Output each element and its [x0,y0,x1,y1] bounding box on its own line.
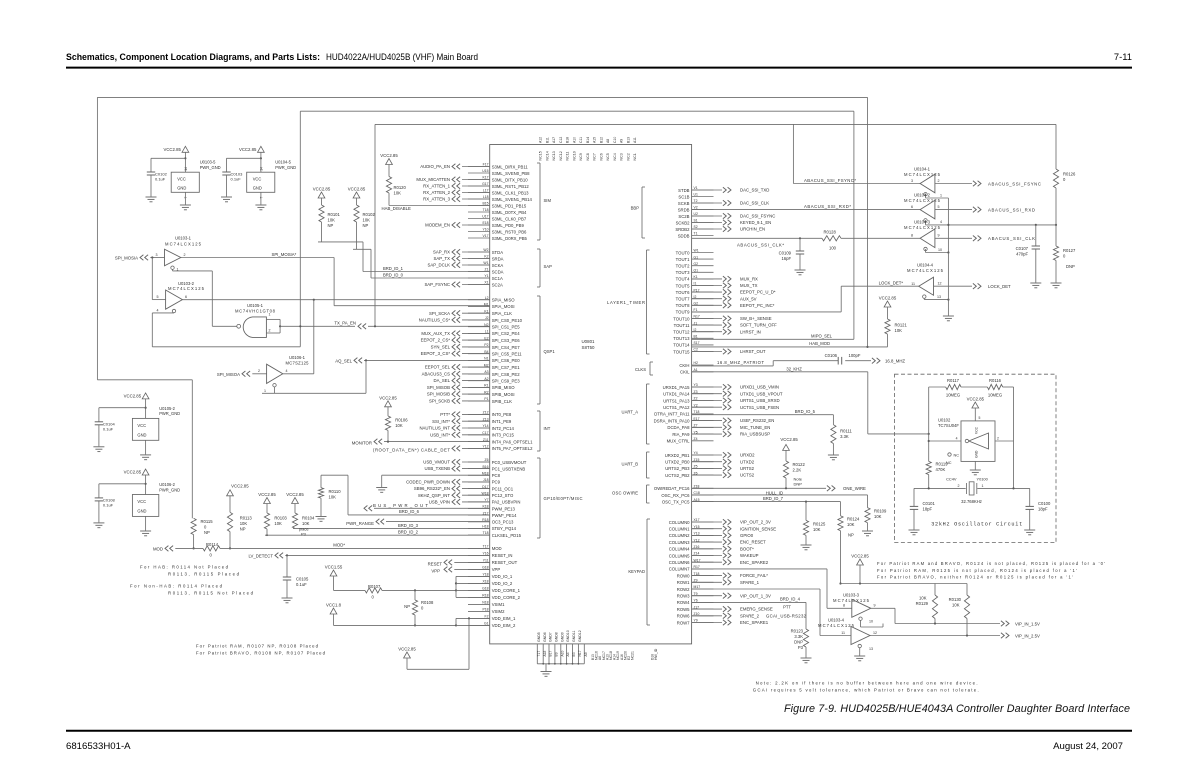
svg-text:4: 4 [157,309,159,313]
svg-text:10MEG: 10MEG [946,393,960,398]
wire TOUT9 to LOCK_DET route [692,281,919,312]
wire BRD_ID_3 / STBY [293,523,490,529]
pin F17 S3ML_DIRX_PB11 [468,163,528,170]
pin A3 SPI_CS8_PE2 [468,370,520,377]
svg-text:SPI_CS4_PE7: SPI_CS4_PE7 [492,345,521,350]
pin GND6 stub [543,632,547,664]
wire MIPO_SEL row (TOUT13) [692,333,854,339]
wire EMERG_SENSE [692,606,773,612]
svg-text:GCAI requires 5 volt tolerance: GCAI requires 5 volt tolerance, which Pa… [753,687,979,692]
svg-text:H2: H2 [694,361,698,365]
wire BOOT* [692,546,755,552]
svg-text:VPP: VPP [431,569,440,574]
svg-text:VIP_OUT_1_3V: VIP_OUT_1_3V [740,593,771,598]
svg-text:SC1A: SC1A [492,276,503,281]
wire U0103-3 enable [861,620,884,627]
svg-text:A9: A9 [584,652,588,656]
svg-text:OSC_RX_PC6: OSC_RX_PC6 [661,493,690,498]
svg-text:USB*_RS232_EN: USB*_RS232_EN [740,418,774,423]
pin M2 SPI_CS7_PE1 [468,363,520,370]
pin R17 COLUMN7 [669,565,714,572]
pin D18 HW_ID [650,648,658,660]
svg-text:BRD_ID_6: BRD_ID_6 [399,509,420,514]
svg-text:ROW5: ROW5 [677,607,690,612]
svg-text:W1: W1 [694,249,699,253]
svg-text:U0104-2: U0104-2 [914,193,931,198]
svg-text:TOUT12: TOUT12 [673,330,690,335]
svg-text:2: 2 [997,437,999,441]
svg-text:VCC2.85: VCC2.85 [124,470,142,475]
svg-text:(ROOT_DATA_EN*) CABLE_DET: (ROOT_DATA_EN*) CABLE_DET [373,447,450,452]
svg-text:ROW3: ROW3 [677,594,690,599]
svg-text:U0801: U0801 [582,339,595,344]
pin NC10 (top) [573,137,577,161]
svg-text:R0101: R0101 [328,212,341,217]
svg-text:SRDB: SRDB [678,207,690,212]
wire MUX_MICATTEN [416,177,489,183]
wire SPI_SCKB [429,398,490,404]
svg-text:LV_DETECT: LV_DETECT [248,554,273,559]
pin NC16 (bottom) [591,651,599,660]
svg-text:Figure 7-9. HUD4025B/HUE4043A: Figure 7-9. HUD4025B/HUE4043A Controller… [784,703,1130,715]
svg-text:UTXD1_USB_VPOUT: UTXD1_USB_VPOUT [740,391,783,396]
pin E2 SPI_CS3_PE6 [468,336,520,343]
svg-text:SPIB_CLK: SPIB_CLK [492,399,512,404]
wire NAUTILUS_CS* [419,317,490,323]
wire AUDIO_PA_EN [420,164,489,170]
ground (R0125) [801,545,812,550]
pin F2 VDD_EIM_1 [468,615,516,622]
svg-text:R0127: R0127 [1063,248,1076,253]
svg-text:VCC2.85: VCC2.85 [851,554,869,559]
svg-text:A17: A17 [552,137,556,143]
svg-text:U1: U1 [694,193,698,197]
wire U0103-4 enable to ground [859,648,861,656]
svg-text:NC11: NC11 [566,152,570,161]
svg-text:VCC1.55: VCC1.55 [325,565,343,570]
svg-text:T17: T17 [537,651,541,657]
wire EEPOT_3_CS* [421,351,490,357]
svg-text:EEPOT_3_CS*: EEPOT_3_CS* [421,351,451,356]
svg-text:RESET_IN: RESET_IN [492,553,513,558]
svg-text:ROW4: ROW4 [677,600,690,605]
wire MUX_TX [692,283,758,289]
svg-text:TOUT6: TOUT6 [676,290,690,295]
svg-text:SAP: SAP [544,264,553,269]
svg-text:U0104-1: U0104-1 [914,167,931,172]
dashed box 32kHz oscillator [895,374,1057,542]
svg-text:12: 12 [873,631,877,635]
svg-text:VCC: VCC [177,177,186,182]
pin T18 CLKSEL_PD15 [468,531,522,538]
resistor R0113 10K NP with VCC2.85 [227,484,253,550]
wire U0106-1 output to SPIA_MISO [283,300,314,374]
pin P2 SPI_CS4_PE7 [468,343,520,350]
svg-text:MC74LCX125: MC74LCX125 [818,623,855,628]
pin GND5 stub [537,632,541,664]
note 2.2K one wire [753,681,979,693]
svg-text:INT2_PC14: INT2_PC14 [492,426,515,431]
pin T18 ROW0 [677,572,714,579]
svg-text:T18: T18 [483,208,489,212]
wire ROW4 BRD_ID_4 to R0123 [692,597,806,629]
svg-text:8KHZ_QSP_INT: 8KHZ_QSP_INT [418,493,450,498]
svg-text:RX_ATTEN_2: RX_ATTEN_2 [423,190,451,195]
svg-text:NC6: NC6 [600,153,604,160]
svg-text:C0109: C0109 [779,251,792,256]
svg-text:COLUMN0: COLUMN0 [669,520,690,525]
svg-text:VCC2.85: VCC2.85 [348,187,366,192]
wire ground bus under IC [537,663,584,672]
pin B16 PC1_USBTXENB [468,465,525,472]
bracket group QSP1 [537,296,555,404]
wire CKIL 32_KHZ row to oscillator [692,366,930,435]
wire RIA_USBSUSP [692,431,771,437]
svg-text:GND7: GND7 [549,632,553,642]
pin Q1 TOUT3 [676,269,714,276]
wire FORCE_FAIL* [692,573,769,579]
svg-text:U0105-1: U0105-1 [247,303,264,308]
svg-text:GND9: GND9 [560,632,564,642]
svg-text:SCKA: SCKA [492,263,504,268]
svg-text:U0104-3: U0104-3 [914,220,931,225]
svg-text:RESET: RESET [428,562,443,567]
svg-text:RIA_PA9: RIA_PA9 [672,432,690,437]
svg-text:11: 11 [911,282,915,286]
svg-text:8: 8 [911,234,913,238]
svg-text:SC2A: SC2A [492,282,503,287]
svg-text:10K: 10K [847,522,855,527]
pin R18 OC3_PC13 [468,518,514,525]
wire PTT* [440,412,489,418]
wire U0104-2 enable rail to R0126/R0127 [926,220,1058,226]
svg-text:BRD_ID_7: BRD_ID_7 [763,496,784,501]
note For Patriot RAM and BRAVO [877,561,1105,580]
svg-text:B11: B11 [546,137,550,143]
pin K1 TOUT4 [676,275,714,282]
pin N18 VSIM1 [468,601,505,608]
svg-text:INT1_PE9: INT1_PE9 [492,419,512,424]
pin Z18 OWIREDAT_PC16 [654,485,714,492]
svg-text:NC15: NC15 [539,151,543,160]
svg-text:STDA: STDA [492,250,504,255]
svg-text:MUX_AUX_TX: MUX_AUX_TX [421,331,450,336]
svg-text:VCC: VCC [137,499,146,504]
svg-text:3: 3 [156,253,158,257]
svg-text:R0129: R0129 [916,601,929,606]
bracket group LAYER1_TIMER [607,250,650,354]
svg-text:SAP_DCLK: SAP_DCLK [428,263,451,268]
svg-text:VSIM2: VSIM2 [492,609,505,614]
svg-text:VCC2.85: VCC2.85 [967,397,985,402]
svg-text:COLUMN6: COLUMN6 [669,560,690,565]
svg-text:LHRST_OUT: LHRST_OUT [740,349,766,354]
svg-text:SC1B: SC1B [678,194,689,199]
svg-text:DTRA_INT7_PA11: DTRA_INT7_PA11 [654,412,690,417]
wire LHRST_IN [692,329,761,335]
svg-text:GND: GND [253,186,262,191]
svg-text:URTS2: URTS2 [740,466,755,471]
note For Patriot RAM/BRAVO resistors [196,644,326,656]
svg-text:PWR_GND: PWR_GND [159,411,180,416]
svg-text:G2: G2 [694,262,699,266]
pin Y5 RIA_PA9 [672,430,713,437]
svg-text:ROW7: ROW7 [677,620,690,625]
svg-text:A10: A10 [573,137,577,143]
svg-text:GND: GND [137,509,146,514]
wire ABACUS_SSI_FSYNC output [935,181,1041,187]
svg-text:VIP_IN_2.5V: VIP_IN_2.5V [1015,633,1040,638]
svg-text:URTS1_USB_XRXD: URTS1_USB_XRXD [740,398,780,403]
svg-text:32kHz Oscillator Circuit: 32kHz Oscillator Circuit [931,522,1022,528]
svg-text:5: 5 [157,295,159,299]
wire MOD-HAB_MOD top loop (left border) [97,97,192,518]
svg-text:SW_B+_SENSE: SW_B+_SENSE [740,316,772,321]
wire AUX_5V [692,296,757,302]
pin R1 SPIB_MISO [468,384,515,391]
svg-text:UCTS2_PB2: UCTS2_PB2 [665,473,690,478]
svg-text:P3: P3 [798,645,804,650]
svg-text:SRDB2: SRDB2 [675,227,690,232]
svg-text:GND8: GND8 [555,632,559,642]
svg-text:TOUT14: TOUT14 [673,343,690,348]
svg-text:13: 13 [937,295,941,299]
resistor R0106 10K with VCC2.85 (MONITOR) [379,395,408,441]
pin Y3 URXD1_PA15 [663,383,714,390]
svg-text:WAKEUP: WAKEUP [740,553,759,558]
ground (PC8) [376,488,387,493]
svg-text:For Patriot BRAVO, R0108 NP, R: For Patriot BRAVO, R0108 NP, R0107 Place… [196,651,326,656]
resistor R0121 10K with VCC2.85 [868,296,908,347]
wire oscillator input [928,387,961,461]
pin N1 SPI_CS6_PE0 [468,357,520,364]
svg-text:C0105: C0105 [296,577,309,582]
svg-text:R0124: R0124 [847,517,860,522]
pin GND12 stub [578,630,582,664]
pin I1 TOUT5 [676,282,714,289]
pin G18 VPP [468,566,500,573]
svg-text:10K: 10K [395,423,403,428]
pin Z10 ROW6 [677,612,714,619]
svg-text:Schematics, Component Location: Schematics, Component Location Diagrams,… [66,51,320,62]
wire oscillator top rail [929,386,1014,388]
ground (C0105) [282,598,293,603]
capacitor C0100 18pF [1026,488,1052,529]
svg-text:R0106: R0106 [395,418,408,423]
resistor R0130 10K [949,584,970,636]
wire TX_PA_EN row [280,321,490,329]
svg-text:NC4: NC4 [613,153,617,160]
pin NC8 (top) [586,137,590,161]
wire EEPOT_PC_U_D* [692,289,776,295]
svg-text:U0103-1: U0103-1 [175,236,192,241]
svg-text:NC8: NC8 [586,153,590,160]
bracket group BBP [631,187,645,238]
svg-text:SPIA_MOSI: SPIA_MOSI [492,304,515,309]
pin E17 DSRA_INT6_PA10 [654,417,714,424]
wire ROW2 to U0103-4 [692,589,851,636]
resistor R0127 0 DNP [1053,225,1076,283]
svg-text:NAUTILUS_CS*: NAUTILUS_CS* [419,318,451,323]
pin U17 S3ML_CLK0_PB7 [468,215,527,222]
wire ENC_SPARE2 [692,559,769,565]
wire SPI_MISOB [427,385,490,391]
svg-text:EEPOT_PC_U_D*: EEPOT_PC_U_D* [740,290,776,295]
svg-text:PWR_GND: PWR_GND [200,165,221,170]
svg-text:SPI_MOSIB: SPI_MOSIB [427,392,450,397]
crystal Y0100 32.768KHz [914,477,1030,505]
pin T1 SDDB [678,232,714,239]
pin G17 S3ML_RST1_PB12 [468,182,529,189]
svg-text:ABACUS_SSI_FSYNC: ABACUS_SSI_FSYNC [988,181,1041,186]
bracket group UART_A herder [622,384,650,444]
svg-text:PWR_RANGE: PWR_RANGE [346,521,374,526]
svg-text:INT5_PA7_OPTSEL2: INT5_PA7_OPTSEL2 [492,446,533,451]
svg-text:S3ML_PD0_PB9: S3ML_PD0_PB9 [492,223,525,228]
svg-text:MUX_MICATTEN: MUX_MICATTEN [416,177,450,182]
wire SAP_RX [433,249,490,255]
pin NC1 (top) [633,137,637,160]
wire LV_DETECT row [248,553,489,559]
svg-text:R0125: R0125 [813,522,826,527]
pin Y15 COLUMN1 [669,525,714,532]
svg-text:Y7: Y7 [484,498,488,502]
svg-text:VDD_IO_2: VDD_IO_2 [492,581,513,586]
pin Y18 VDD_IO_1 [468,573,513,580]
svg-text:GND: GND [137,432,146,437]
wire SPIA_MISO row (U0103-2 output) [182,299,489,301]
capacitor C0103 / power block U0104-5 [221,146,296,210]
svg-text:OC3_PC13: OC3_PC13 [492,520,514,525]
pin Y13 COLUMN2 [669,532,714,539]
svg-text:NC21: NC21 [631,651,635,660]
pin D17 PC11_OC1 [468,485,514,492]
wire USB_VPIN [429,499,490,505]
svg-text:BRD_ID_3: BRD_ID_3 [398,523,419,528]
buffer U0103-1 MC74LCX125 [115,236,202,272]
resistor R0124 10K NP [838,502,860,585]
wire U0103-4 output to VIP_IN_2.5V [870,633,1040,639]
svg-text:1: 1 [269,313,271,317]
capacitor C0109 16pF [779,238,805,269]
svg-text:C0101: C0101 [923,501,936,506]
pin NC9 (top) [579,137,583,161]
svg-text:GND: GND [177,186,186,191]
svg-text:C10: C10 [613,137,617,143]
wire BRD_ID_2 / CLKSEL [265,530,490,536]
svg-text:GND6: GND6 [543,632,547,642]
svg-text:NP: NP [363,223,369,228]
svg-text:NP: NP [240,527,246,532]
svg-text:32_KHZ: 32_KHZ [786,366,802,371]
svg-text:N18: N18 [482,601,488,605]
svg-text:U15: U15 [482,169,488,173]
svg-text:6816533H01-A: 6816533H01-A [66,741,131,752]
wire ABACUS3_CS [422,371,490,377]
svg-text:10K: 10K [952,603,960,608]
svg-text:100pF: 100pF [849,353,861,358]
pin Z15 UTXD2_PB0 [665,458,713,465]
svg-text:NC14: NC14 [546,151,550,160]
svg-text:GP10/E0PT/MISC: GP10/E0PT/MISC [544,496,583,501]
pin J17 ROW5 [677,605,714,612]
svg-text:VCC2.85: VCC2.85 [239,147,257,152]
capacitor C0108 / power block U0106-2 [93,469,180,536]
capacitor C0104 / power block U0105-2 [93,393,180,460]
svg-text:VDD_EIM_1: VDD_EIM_1 [492,616,516,621]
svg-text:MC74LCX125: MC74LCX125 [168,286,205,291]
svg-text:3.3K: 3.3K [794,634,803,639]
wire HAB_MOD row (TOUT14) [692,341,869,348]
svg-text:R0122: R0122 [793,462,806,467]
wire SYN_SEL [431,344,490,350]
svg-text:7: 7 [259,197,263,199]
svg-text:MOD: MOD [492,546,502,551]
buffer U0104-1 MC74LCX125 [904,167,941,196]
svg-text:PC0_USBVMOUT: PC0_USBVMOUT [492,460,527,465]
resistor R0108 0 NP [404,590,434,626]
svg-text:SPIB_MOSI: SPIB_MOSI [492,392,515,397]
ground (R0109) [862,531,873,536]
pin U15 S3ML_SVEN0_PB8 [468,169,530,176]
svg-text:UTXD1_PA14: UTXD1_PA14 [663,392,690,397]
svg-text:S3ML_D0TX_PB4: S3ML_D0TX_PB4 [492,210,527,215]
svg-text:R0117: R0117 [947,378,960,383]
pin W17 COLUMN6 [669,558,714,565]
pin Y16 RESET_IN [468,552,512,559]
svg-text:Y0100: Y0100 [977,477,989,482]
svg-text:BRD_IO_5: BRD_IO_5 [795,409,816,414]
wire ENC_SPARE1 [692,620,769,626]
svg-text:COLUMN7: COLUMN7 [669,567,690,572]
svg-text:10: 10 [869,620,873,624]
svg-text:VPP: VPP [492,567,501,572]
svg-text:NC1: NC1 [633,153,637,160]
svg-text:SPARE_1: SPARE_1 [740,580,760,585]
capacitor C0105 0.1uF [283,555,309,597]
svg-text:UCTS1_PA12: UCTS1_PA12 [663,405,690,410]
pin Z14 COLUMN5 [669,552,714,559]
wire URTS1_USB_XRXD [692,398,780,404]
svg-text:VCC2.85: VCC2.85 [163,147,181,152]
pin V17 S3ML_D0RX_PB5 [468,234,528,241]
svg-text:PTT: PTT [783,605,791,610]
wire 8KHZ_QSP_INT [418,492,489,498]
svg-text:SPI_CS7_PE1: SPI_CS7_PE1 [492,365,521,370]
svg-text:C11: C11 [579,137,583,143]
ground (IC ground bus) [541,672,552,677]
svg-text:EEPOT_SEL: EEPOT_SEL [425,365,451,370]
svg-text:ONE_WIRE: ONE_WIRE [843,486,866,491]
wire SOFT_TURN_OFF [692,322,778,328]
svg-text:R0108: R0108 [421,600,434,605]
svg-text:SCKB2: SCKB2 [676,220,691,225]
pin X18 VDD_IO_2 [468,580,513,587]
svg-text:TOUT1: TOUT1 [676,257,690,262]
svg-text:VCC2.85: VCC2.85 [780,437,798,442]
pin V1 STDB [678,186,713,193]
wire IGNITION_SENSE [692,526,777,532]
pin NC4 (top) [613,137,617,161]
svg-text:URTS2_PB3: URTS2_PB3 [665,466,690,471]
wire inverter output [995,387,1014,488]
svg-text:NAUTILUS_INT: NAUTILUS_INT [419,426,450,431]
wire NAUTILUS_INT [419,425,489,431]
svg-text:S3ML_DITX_PB10: S3ML_DITX_PB10 [492,177,529,182]
svg-text:TOUT10: TOUT10 [673,316,690,321]
svg-text:4: 4 [940,220,942,224]
svg-text:B14: B14 [586,137,590,143]
